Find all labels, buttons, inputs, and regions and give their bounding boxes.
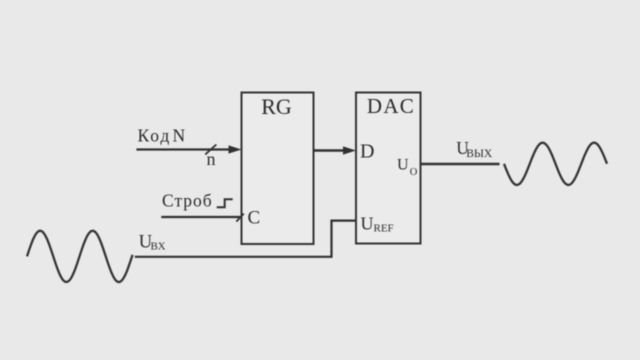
bus width slash (205, 145, 216, 155)
svg-text:N: N (173, 125, 186, 145)
input sine wave (27, 231, 133, 282)
svg-text:ВЫХ: ВЫХ (466, 148, 493, 160)
svg-text:DAC: DAC (367, 94, 415, 118)
DAC U2 (356, 93, 421, 244)
wire Uvh to Uref (135, 221, 356, 257)
svg-text:ВХ: ВХ (151, 241, 166, 253)
svg-text:Код: Код (138, 125, 172, 145)
svg-text:O: O (410, 167, 418, 178)
svg-text:D: D (360, 141, 374, 163)
svg-text:U: U (397, 157, 409, 174)
svg-text:Строб: Строб (162, 191, 213, 211)
wire RG to DAC (314, 149, 347, 151)
svg-text:n: n (207, 149, 216, 169)
dynamic input slash at C (236, 214, 244, 222)
wire Strob to C (161, 216, 240, 218)
pulse edge symbol (217, 199, 233, 207)
arrowhead into DAC (343, 146, 356, 154)
svg-text:RG: RG (261, 94, 292, 119)
svg-text:U: U (361, 213, 374, 233)
arrowhead into RG (229, 145, 242, 153)
register RG (242, 93, 314, 245)
svg-text:REF: REF (374, 223, 394, 235)
wire Kod N bus input (136, 148, 231, 150)
wire DAC output (421, 163, 500, 165)
output sine wave (504, 143, 607, 185)
svg-text:C: C (248, 207, 261, 228)
